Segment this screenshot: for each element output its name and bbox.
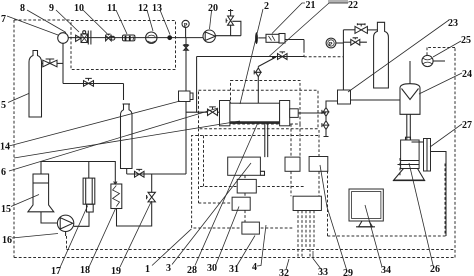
inter-box dashed connectors	[244, 175, 246, 179]
svg-text:28: 28	[187, 265, 197, 276]
monitor 34	[349, 189, 383, 221]
svg-text:12: 12	[138, 3, 148, 14]
controller bus verticals	[297, 211, 299, 258]
signal bus dashed line bottom	[67, 249, 456, 251]
beaker to pump	[41, 212, 57, 223]
svg-text:7: 7	[1, 14, 6, 25]
signal drops to B5	[290, 124, 292, 157]
svg-text:3: 3	[166, 263, 171, 274]
svg-text:20: 20	[208, 3, 218, 14]
svg-text:1: 1	[145, 264, 150, 275]
needle valve on vertical	[184, 45, 189, 51]
line from cyl14 bottom to mixing line	[126, 169, 128, 175]
svg-text:2: 2	[264, 1, 269, 12]
main line to valve train	[68, 37, 203, 39]
check dot 13	[167, 35, 172, 40]
reactor inner dashed box	[231, 81, 301, 125]
P gauge right	[326, 38, 336, 48]
svg-text:13: 13	[152, 3, 162, 14]
svg-text:4: 4	[252, 262, 257, 273]
high pressure view cell reactor	[220, 101, 230, 126]
svg-text:P: P	[329, 42, 333, 48]
reactor box left edge extension	[199, 129, 233, 203]
control-section dashed box	[192, 136, 318, 229]
regulator circle 8	[58, 33, 69, 44]
gas cylinder 22	[374, 22, 389, 88]
svg-text:8: 8	[20, 3, 25, 14]
svg-text:15: 15	[1, 204, 11, 215]
transfer line y56.5	[197, 56, 304, 58]
top line to cylinder 22	[343, 29, 355, 31]
branch down to valve 19	[151, 174, 153, 192]
svg-text:21: 21	[306, 0, 316, 11]
svg-text:23: 23	[448, 18, 458, 29]
column 18 heat exchanger	[111, 184, 122, 209]
pump 20	[203, 30, 215, 42]
trap outlet loop with metering valves	[326, 101, 338, 107]
vent valve y42	[343, 41, 350, 43]
riser to cold trap	[342, 30, 344, 90]
svg-text:16: 16	[2, 235, 12, 246]
svg-text:17: 17	[51, 266, 61, 276]
svg-text:31: 31	[229, 264, 239, 275]
reactor outlet line	[298, 112, 326, 114]
valve 9 with actuator	[76, 35, 81, 42]
svg-text:14: 14	[0, 142, 10, 153]
relief loop	[232, 21, 241, 35]
cold trap 23	[338, 90, 351, 104]
reactor outer dashed box	[199, 90, 319, 129]
inner valve-train dashed box	[71, 21, 176, 70]
sampling vertical from main line	[185, 38, 187, 91]
flowmeter 12	[146, 32, 157, 43]
cylinder 5 outlet valve	[42, 62, 43, 64]
svg-text:25: 25	[461, 35, 471, 46]
gas cylinder 5	[29, 51, 42, 118]
svg-text:10: 10	[74, 3, 84, 14]
svg-text:11: 11	[107, 3, 116, 14]
svg-text:32: 32	[279, 268, 289, 276]
display-section dashed box	[327, 172, 329, 237]
horizontal signal dashed	[200, 186, 305, 188]
separator inlet from top	[409, 61, 411, 84]
beaker 15	[28, 174, 54, 212]
svg-text:29: 29	[343, 268, 353, 276]
camera 26	[406, 137, 411, 140]
svg-text:33: 33	[318, 267, 328, 276]
column 17	[88, 162, 90, 179]
reactor thermocouple wires	[265, 123, 268, 157]
svg-text:6: 6	[1, 167, 6, 178]
camera signal line	[431, 152, 447, 237]
svg-text:9: 9	[49, 3, 54, 14]
inline unit on vertical	[179, 91, 191, 102]
svg-text:26: 26	[430, 264, 440, 275]
reactor inlet	[186, 111, 208, 113]
outer system boundary dashed box	[14, 19, 71, 21]
svg-text:34: 34	[381, 265, 391, 276]
valve 10	[106, 35, 112, 40]
pressure reducing valve	[355, 26, 367, 33]
signal drops to B6	[318, 130, 320, 157]
valve on lower transfer line	[84, 81, 94, 87]
pressure gauge on main line	[182, 20, 189, 27]
pump 16	[57, 215, 73, 231]
svg-text:18: 18	[80, 265, 90, 276]
pump16 signal drop	[66, 236, 68, 250]
gray artifact bar	[328, 0, 348, 4]
separator 24	[400, 84, 420, 115]
valve on transfer line	[278, 54, 288, 60]
pump outlet to column 17	[74, 212, 89, 226]
svg-text:27: 27	[462, 120, 472, 131]
trap to separator line	[351, 99, 401, 101]
metering valve 25	[422, 55, 433, 66]
filter 11	[123, 35, 135, 41]
lower transfer line to cylinder 14	[63, 84, 124, 101]
valve on y174 line	[135, 171, 145, 177]
svg-text:30: 30	[207, 263, 217, 274]
regulator down-line	[62, 43, 64, 83]
return line into beaker	[41, 162, 115, 185]
dashed segment of transfer line	[303, 50, 305, 57]
svg-text:22: 22	[348, 0, 358, 11]
separator to camera	[407, 114, 411, 140]
gas cylinder 14 (small)	[121, 104, 133, 169]
slanted feed with arrow into reactor	[258, 57, 276, 67]
svg-text:5: 5	[1, 100, 6, 111]
svg-text:19: 19	[111, 266, 121, 276]
svg-text:24: 24	[462, 69, 472, 80]
syringe pump 21 end disc	[255, 32, 258, 44]
